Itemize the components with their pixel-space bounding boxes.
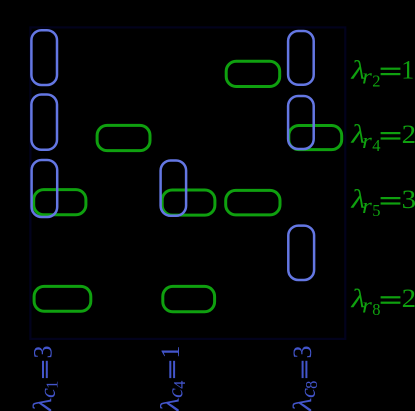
svg-text:8: 8 <box>302 381 321 389</box>
blue capsule G (col c8, rows 6-7) <box>288 226 314 280</box>
svg-text:1: 1 <box>43 381 62 389</box>
label lambda_r8 = 2 <box>350 284 415 319</box>
green capsule K (row r5, cols 1-2) <box>34 190 86 215</box>
svg-text:8: 8 <box>372 300 380 319</box>
label lambda_r2 = 1 <box>350 55 414 90</box>
svg-text:λ: λ <box>156 398 185 411</box>
svg-text:3: 3 <box>402 185 415 214</box>
svg-text:r: r <box>362 128 372 153</box>
svg-text:2: 2 <box>372 72 380 91</box>
svg-text:1: 1 <box>401 56 414 85</box>
label lambda_r5 = 3 <box>350 185 415 220</box>
svg-text:5: 5 <box>372 201 380 220</box>
blue capsule F (col c8, rows 3-4) <box>288 96 314 149</box>
blue capsule D (col c4, rows 5-6) <box>161 161 187 216</box>
label lambda_c4 = 1 (rotated) <box>156 346 189 411</box>
svg-text:2: 2 <box>402 120 415 149</box>
green capsule M (row r5, cols 6-7) <box>226 190 280 215</box>
green capsule L (row r5, cols 4-5) <box>162 190 215 215</box>
svg-text:r: r <box>362 292 372 317</box>
blue capsule B (col c1, rows 3-4) <box>31 95 57 150</box>
green capsule H (row r2) <box>226 61 280 86</box>
green capsule I (row r4, cols 2-3) <box>97 125 150 150</box>
svg-text:λ: λ <box>288 398 317 411</box>
grid frame <box>30 27 345 339</box>
svg-text:r: r <box>362 193 372 218</box>
green capsule O (row r8, cols 4-5) <box>163 286 215 311</box>
green capsule N (row r8, cols 1-2) <box>34 286 91 311</box>
label lambda_c1 = 3 (rotated) <box>28 346 61 411</box>
svg-text:λ: λ <box>28 398 57 411</box>
green capsule J (row r4, cols 8-9) <box>289 126 342 150</box>
blue capsule A (col c1, rows 1-2) <box>31 30 57 85</box>
svg-text:4: 4 <box>170 381 189 389</box>
svg-text:r: r <box>362 64 372 89</box>
svg-text:3: 3 <box>29 346 58 359</box>
svg-text:1: 1 <box>156 346 185 359</box>
svg-text:4: 4 <box>372 136 380 155</box>
blue capsule E (col c8, rows 1-2) <box>288 31 314 85</box>
svg-text:2: 2 <box>402 284 415 313</box>
blue capsule C (col c1, rows 5-6) <box>32 160 58 217</box>
label lambda_c8 = 3 (rotated) <box>288 346 321 411</box>
label lambda_r4 = 2 <box>350 120 415 155</box>
svg-text:3: 3 <box>288 346 317 359</box>
